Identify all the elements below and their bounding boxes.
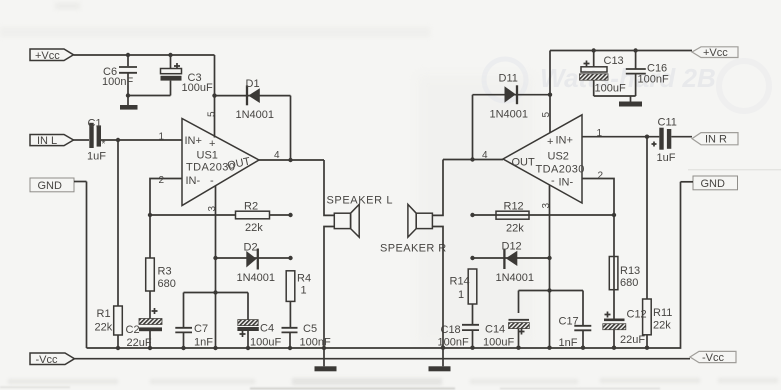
resistor R11 22k [643, 299, 673, 348]
wire out to speaker R [432, 160, 443, 216]
svg-text:C4: C4 [260, 323, 274, 335]
capacitor C7 1nF [175, 293, 213, 349]
wire C11 to IN R [671, 136, 692, 138]
svg-text:IN L: IN L [37, 135, 57, 147]
svg-text:D1: D1 [246, 78, 260, 90]
svg-text:100uF: 100uF [250, 337, 281, 349]
scan smudges bottom [8, 378, 778, 385]
svg-text:1uF: 1uF [657, 152, 676, 164]
svg-text:1uF: 1uF [87, 151, 106, 163]
svg-text:GND: GND [38, 180, 63, 192]
svg-text:OUT: OUT [512, 157, 536, 169]
svg-text:R3: R3 [158, 266, 172, 278]
svg-text:1: 1 [159, 132, 165, 143]
ground under C16 [619, 96, 642, 107]
svg-text:C2: C2 [126, 324, 140, 336]
node C6 tap [126, 53, 130, 57]
wire pin1 U2 [582, 128, 659, 139]
svg-text:1nF: 1nF [194, 337, 213, 349]
wire D1 to out node [290, 96, 292, 160]
svg-text:-: - [551, 175, 555, 187]
svg-text:22uF: 22uF [620, 334, 645, 346]
resistor R2 22k [150, 201, 293, 235]
svg-text:SPEAKER R: SPEAKER R [380, 243, 447, 255]
capacitor C2 22uF [126, 308, 163, 349]
wire C1 to pin1 [101, 132, 182, 143]
diode D1 1N4001 [236, 78, 275, 121]
watermark text [540, 61, 769, 111]
svg-text:C7: C7 [194, 323, 208, 335]
wire pin5 U2 [548, 51, 552, 134]
svg-text:1N4001: 1N4001 [236, 109, 275, 121]
svg-text:680: 680 [158, 278, 176, 290]
wire pin3 U2 down [541, 185, 552, 348]
wire C13-C16 bottoms [594, 95, 636, 97]
svg-text:IN-: IN- [186, 175, 201, 187]
wire out to speaker L [324, 160, 334, 215]
svg-text:22k: 22k [506, 223, 524, 235]
node C3 tap [168, 53, 172, 57]
wire D2 row [216, 256, 293, 260]
resistor R12 22k [470, 201, 614, 235]
svg-text:IN-: IN- [559, 177, 574, 189]
svg-text:100uF: 100uF [595, 83, 626, 95]
svg-text:IN R: IN R [705, 134, 727, 146]
svg-text:1N4001: 1N4001 [496, 272, 535, 284]
wire pin2 U1 [148, 175, 182, 258]
wire C6-C3 bottoms [126, 93, 171, 97]
capacitor C3 [161, 55, 213, 96]
wire C7-C4 row [184, 292, 249, 294]
capacitor C1 [87, 118, 106, 163]
capacitor C6 [102, 55, 137, 96]
svg-text:+: + [547, 136, 553, 148]
svg-text:D2: D2 [244, 242, 258, 254]
ground under C6 [120, 96, 138, 110]
svg-text:100nF: 100nF [102, 76, 133, 88]
terminal IN L [30, 135, 74, 148]
resistor R13 680 [609, 257, 640, 290]
svg-text:2: 2 [159, 175, 165, 186]
ground rail [87, 346, 681, 351]
wire speaker L down [324, 227, 334, 349]
wire speaker R down [432, 227, 443, 348]
capacitor C14 100uF [483, 291, 529, 349]
terminal +Vcc right [692, 47, 738, 59]
svg-text:OUT: OUT [226, 156, 251, 173]
svg-text:100uF: 100uF [182, 82, 213, 94]
svg-text:1: 1 [458, 289, 464, 301]
svg-text:1: 1 [301, 285, 307, 297]
svg-text:IN+: IN+ [556, 135, 573, 147]
terminal -Vcc left [30, 353, 75, 366]
svg-text:GND: GND [701, 178, 726, 190]
wire D11 to out node [472, 95, 474, 160]
resistor R3 680 [146, 258, 176, 291]
watermark badge ghost [484, 59, 526, 101]
speaker R [380, 204, 447, 254]
wire D12 row [470, 256, 549, 260]
ground under speaker L [315, 348, 337, 371]
svg-text:100nF: 100nF [300, 337, 331, 349]
svg-text:R12: R12 [504, 201, 524, 213]
node C16 tap [633, 48, 637, 52]
pin 5 label U1 [207, 111, 218, 117]
wire U1 out [259, 150, 324, 162]
svg-text:C12: C12 [627, 309, 647, 321]
scan noise band top [0, 3, 430, 37]
terminal -Vcc right [690, 351, 736, 364]
svg-text:Watts-hard 2B: Watts-hard 2B [540, 63, 716, 93]
capacitor C18 100nF [438, 324, 480, 349]
wire input node down [117, 140, 119, 306]
svg-text:C11: C11 [658, 117, 677, 129]
wire -Vcc rail [75, 358, 691, 360]
svg-text:+: + [209, 138, 215, 150]
svg-text:TDA2030: TDA2030 [536, 164, 585, 176]
wire R3 to C2 [149, 291, 151, 319]
svg-text:100nF: 100nF [638, 74, 669, 86]
svg-text:5: 5 [541, 112, 552, 118]
svg-text:R1: R1 [97, 308, 111, 320]
wire U2 out [443, 150, 503, 162]
svg-text:-: - [210, 175, 214, 187]
svg-text:4: 4 [274, 150, 280, 161]
terminal +Vcc left [30, 49, 74, 62]
svg-text:-Vcc: -Vcc [36, 354, 59, 366]
speaker L [327, 195, 394, 238]
ground under speaker R [429, 348, 451, 372]
svg-text:-Vcc: -Vcc [702, 352, 725, 364]
wire pin3 U1 down [207, 186, 218, 349]
capacitor C5 100nF [282, 323, 331, 349]
svg-text:R14: R14 [450, 276, 470, 288]
wire pin5 U1 [212, 55, 216, 138]
svg-text:R4: R4 [297, 273, 311, 285]
svg-text:22k: 22k [653, 320, 671, 332]
wire +Vcc rail right [550, 50, 692, 52]
svg-text:1N4001: 1N4001 [490, 109, 529, 121]
capacitor C11 [652, 117, 677, 165]
diode D2 1N4001 [237, 242, 276, 285]
svg-text:1: 1 [597, 128, 603, 139]
resistor R14 1 [450, 269, 477, 304]
wire R4 to C5 [289, 301, 291, 327]
wire pin1 node down to R11 [646, 137, 648, 299]
svg-text:680: 680 [620, 277, 638, 289]
svg-text:SPEAKER L: SPEAKER L [327, 195, 394, 207]
capacitor C17 1nF [559, 291, 592, 350]
wire GND right down [680, 182, 682, 348]
node C13 tap [592, 48, 596, 52]
wire D1 row [215, 95, 291, 97]
scan streak near GND right [688, 169, 781, 170]
svg-text:C1: C1 [88, 118, 102, 130]
scan shade band middle [418, 75, 533, 345]
svg-text:IN+: IN+ [185, 135, 202, 147]
scan mark bottom edge [0, 387, 660, 390]
capacitor C16 100nF [626, 51, 669, 97]
svg-text:C14: C14 [485, 324, 505, 336]
terminal GND left [30, 178, 87, 192]
wire GND left down [86, 182, 88, 349]
wire IN L to C1 [74, 139, 90, 141]
svg-text:R2: R2 [244, 201, 258, 213]
diode D12 1N4001 [496, 241, 535, 285]
svg-text:+Vcc: +Vcc [35, 50, 60, 62]
capacitor C4 100uF [237, 293, 281, 349]
svg-text:22k: 22k [245, 222, 263, 234]
svg-text:4: 4 [482, 150, 488, 161]
resistor R4 1 [286, 271, 311, 302]
svg-text:2: 2 [598, 171, 604, 182]
terminal GND right [681, 176, 738, 190]
pin 5 label U2 [541, 112, 552, 118]
wire pin2 U2 [582, 171, 616, 319]
diode D11 1N4001 [490, 73, 529, 121]
wire C14-C17 row [519, 290, 584, 292]
svg-text:R11: R11 [653, 307, 672, 319]
svg-text:R13: R13 [620, 265, 640, 277]
op-amp U1 TDA2030 [182, 119, 259, 206]
svg-text:1N4001: 1N4001 [237, 272, 276, 284]
op-amp U2 TDA2030 [503, 115, 585, 203]
svg-text:100uF: 100uF [483, 337, 514, 349]
svg-text:22k: 22k [95, 322, 113, 334]
svg-text:3: 3 [207, 206, 218, 212]
svg-text:US1: US1 [197, 150, 218, 162]
wire D11 row [473, 94, 551, 96]
svg-text:D11: D11 [499, 73, 518, 85]
wire +Vcc rail left [74, 54, 215, 56]
capacitor C13 100uF [580, 51, 626, 97]
resistor R1 22k [95, 306, 123, 348]
svg-text:C17: C17 [559, 316, 579, 328]
svg-text:+Vcc: +Vcc [703, 47, 728, 59]
svg-text:3: 3 [541, 203, 552, 209]
svg-text:US2: US2 [548, 151, 569, 163]
svg-text:5: 5 [207, 111, 218, 117]
terminal IN R [692, 133, 738, 146]
capacitor C12 22uF [603, 309, 647, 348]
svg-text:C5: C5 [303, 323, 317, 335]
svg-text:D12: D12 [502, 241, 522, 253]
wire R14 to C18 [472, 304, 474, 324]
svg-text:C13: C13 [604, 55, 624, 67]
